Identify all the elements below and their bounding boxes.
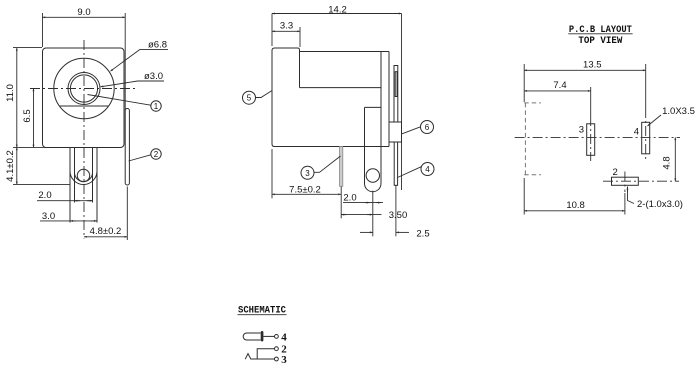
pad 4: [642, 122, 650, 154]
svg-text:3: 3: [281, 354, 287, 365]
front lug pin inner: [75, 148, 93, 203]
dim 4.8±0.2: [84, 226, 127, 237]
svg-text:2.0: 2.0: [343, 192, 356, 203]
pad 3: [587, 124, 595, 156]
dim 13.5: [524, 60, 646, 109]
14.2 right extension: [401, 14, 403, 191]
front lug pin outer: [70, 148, 97, 223]
wire pin 3 with spring contact: [245, 354, 274, 360]
pin pocket: [365, 107, 382, 146]
bushing ring outer: [68, 73, 100, 105]
rear plate slot: [395, 72, 397, 97]
dim 4.1±0.2: [5, 147, 70, 184]
svg-text:10.8: 10.8: [566, 200, 585, 211]
ref circle 3: [301, 156, 341, 179]
dim 11.0: [5, 47, 56, 147]
body outline: [272, 48, 389, 147]
pad 4 centerline: [645, 108, 647, 161]
dim 3.0: [40, 211, 97, 222]
lug hole side: [366, 169, 379, 182]
dim 9.0: [43, 7, 126, 47]
horizontal centerline: [515, 136, 680, 138]
ref circle 1: [88, 95, 162, 112]
dashed body outline: [524, 103, 541, 175]
svg-text:4.1±0.2: 4.1±0.2: [5, 150, 16, 182]
title SCHEMATIC: [238, 305, 287, 316]
horizontal centerline: [30, 88, 135, 90]
dim 7.4: [524, 80, 591, 116]
body outline: [43, 48, 125, 148]
label ø3.0: [101, 71, 164, 87]
ref circle 4: [398, 163, 435, 178]
wire pin 4: [263, 335, 274, 337]
dim 4.8: [662, 137, 676, 181]
bushing ring inner: [70, 75, 97, 102]
dim 2.0 side: [343, 192, 383, 203]
svg-text:14.2: 14.2: [328, 4, 347, 15]
terminal circle 4: [275, 335, 279, 339]
ref circle 2: [129, 149, 162, 161]
wire pin 2: [257, 349, 274, 359]
pad 2 centerline vertical: [624, 172, 626, 193]
tip contact bar: [261, 331, 264, 342]
dim 10.8: [524, 178, 625, 215]
tab extension line: [124, 13, 126, 110]
label 1.0X3.5: [648, 106, 695, 126]
svg-text:3.0: 3.0: [42, 211, 55, 222]
svg-text:11.0: 11.0: [5, 84, 16, 102]
pad 2: [612, 177, 639, 185]
dim 2.0: [37, 190, 93, 201]
svg-text:1: 1: [154, 102, 159, 111]
dim 6.5: [22, 89, 34, 148]
svg-text:4: 4: [281, 331, 287, 343]
title: [568, 25, 632, 47]
big circle (flange face): [54, 58, 114, 118]
pin3 extension: [340, 187, 342, 219]
svg-text:6: 6: [425, 123, 430, 132]
dim 3.50: [341, 210, 407, 221]
svg-text:4.8±0.2: 4.8±0.2: [90, 226, 122, 237]
svg-text:4: 4: [634, 127, 639, 138]
svg-text:TOP VIEW: TOP VIEW: [578, 36, 622, 47]
svg-text:1.0X3.5: 1.0X3.5: [662, 106, 695, 117]
front plate inner edge: [299, 52, 301, 88]
dim 14.2: [272, 4, 402, 46]
label 2-(1.0x3.0): [628, 187, 683, 210]
vertical centerline: [83, 40, 85, 239]
tab 6 box: [389, 122, 402, 142]
svg-text:7.5±0.2: 7.5±0.2: [289, 185, 321, 196]
svg-text:13.5: 13.5: [583, 60, 602, 71]
terminal circle 3: [275, 357, 279, 361]
thin rear plate: [394, 66, 398, 123]
svg-text:ø3.0: ø3.0: [144, 71, 163, 82]
pin 4 blade: [394, 142, 397, 185]
svg-text:2.5: 2.5: [416, 229, 429, 240]
svg-text:4.8: 4.8: [662, 156, 673, 169]
svg-text:3: 3: [579, 125, 584, 136]
barrel bottom line: [300, 87, 382, 89]
svg-text:4: 4: [425, 165, 430, 174]
ref circle 6: [402, 121, 434, 134]
pad 3 centerline: [590, 116, 592, 161]
pin 3 blade: [340, 147, 343, 187]
rear flange edge: [388, 52, 390, 147]
pin4 extension: [395, 186, 397, 237]
svg-text:2.0: 2.0: [38, 190, 51, 201]
svg-text:ø6.8: ø6.8: [148, 40, 167, 51]
ref circle 5: [243, 91, 273, 105]
svg-text:5: 5: [247, 94, 252, 103]
svg-text:7.4: 7.4: [553, 80, 566, 91]
svg-text:6.5: 6.5: [22, 109, 33, 122]
tab bottom extension line: [126, 187, 128, 241]
terminal circle 2: [275, 347, 279, 351]
svg-text:2: 2: [613, 167, 618, 178]
svg-text:2-(1.0x3.0): 2-(1.0x3.0): [637, 199, 683, 210]
label ø6.8: [110, 40, 168, 72]
svg-text:3.3: 3.3: [280, 21, 293, 32]
chord line inside big circle: [60, 105, 109, 107]
svg-text:3.50: 3.50: [389, 210, 408, 221]
svg-text:9.0: 9.0: [77, 7, 90, 18]
lug centerline extension: [372, 191, 374, 237]
lug hole: [77, 169, 89, 181]
jack barrel symbol: [243, 333, 260, 340]
pad 2 centerline horizontal: [603, 180, 679, 182]
dim 7.5±0.2: [272, 149, 341, 198]
svg-text:2: 2: [154, 150, 159, 159]
side tab terminal: [125, 109, 129, 186]
center lug pin side: [365, 147, 382, 192]
dim 2.5: [360, 229, 430, 240]
svg-text:3: 3: [305, 169, 310, 178]
dim 3.3: [272, 21, 300, 47]
